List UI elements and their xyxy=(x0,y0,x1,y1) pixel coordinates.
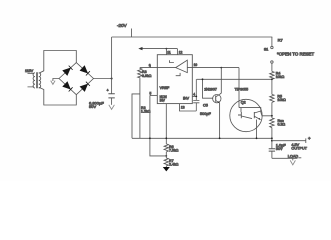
op-amp regulator IC U1 box xyxy=(157,55,192,104)
pin 6 VREF wire to R3 xyxy=(140,67,157,69)
svg-text:OUTPUT: OUTPUT xyxy=(291,147,307,151)
svg-text:LOAD: LOAD xyxy=(288,154,299,158)
transistor Q1 2N2907 xyxy=(213,94,221,102)
ground arrow (open) at output xyxy=(292,158,294,160)
node junction at filter xyxy=(111,78,113,80)
svg-text:50V: 50V xyxy=(89,104,96,109)
wire secondary bottom to bridge bottom xyxy=(39,87,77,105)
divider tap jog xyxy=(150,95,166,155)
error amplifier triangle inside U1 xyxy=(176,60,188,72)
wire R7 to ground xyxy=(165,166,167,167)
svg-text:10kΩ: 10kΩ xyxy=(277,98,286,102)
pin 10 VOUT wire xyxy=(192,67,239,69)
bridge rectifier arms xyxy=(59,63,94,95)
+20V label tick xyxy=(131,29,133,38)
diode D1 top-left xyxy=(63,66,73,76)
diode D2 top-right xyxy=(80,66,90,76)
svg-text:115V: 115V xyxy=(25,69,34,73)
capacitor C1 6800uF xyxy=(107,79,115,105)
svg-text:50V: 50V xyxy=(276,147,283,151)
resistor R4 xyxy=(270,71,274,79)
core xyxy=(36,72,37,88)
secondary winding xyxy=(39,73,41,88)
right rail from top xyxy=(271,37,273,46)
capacitor C5 500pF xyxy=(193,79,199,111)
Q1 collector riser xyxy=(219,68,221,95)
svg-text:VREF: VREF xyxy=(160,86,170,90)
pin 13 COMP wire xyxy=(180,104,197,111)
svg-text:*OPEN TO RESET: *OPEN TO RESET xyxy=(277,51,314,56)
wire R4 to R5, junction with CL line xyxy=(271,79,273,94)
transformer T1 xyxy=(28,72,41,88)
Q1 base jog xyxy=(203,79,214,98)
Q2 collector to right rail xyxy=(261,112,272,116)
diode D4 bottom-right xyxy=(80,82,90,92)
resistor Rsc xyxy=(270,118,274,128)
svg-text:10kΩ: 10kΩ xyxy=(276,75,285,79)
svg-text:5: 5 xyxy=(150,92,152,96)
wire R6 to R7 xyxy=(165,152,167,158)
ground arrow (open, gray) at bridge xyxy=(51,81,55,85)
svg-text:S1: S1 xyxy=(264,48,268,52)
svg-text:11: 11 xyxy=(167,50,171,54)
svg-text:12: 12 xyxy=(179,50,183,54)
bottom sense line xyxy=(132,137,272,139)
svg-text:4: 4 xyxy=(193,93,195,97)
wire Rsc to output node xyxy=(271,128,273,149)
svg-text:C5: C5 xyxy=(203,104,208,108)
Q2 internal darlington xyxy=(239,108,261,112)
bridge left vertex ground stub xyxy=(53,79,59,82)
primary winding xyxy=(33,73,35,88)
svg-text:Q2: Q2 xyxy=(241,100,246,104)
wire bridge + output to filter node xyxy=(94,78,112,80)
svg-text:TIP3055: TIP3055 xyxy=(235,88,249,92)
diode D3 bottom-left xyxy=(63,82,73,92)
svg-text:-20V: -20V xyxy=(117,23,128,28)
svg-text:3.9kΩ: 3.9kΩ xyxy=(142,74,152,78)
svg-text:R7: R7 xyxy=(278,37,284,42)
pin 7 V- wire down from U1 xyxy=(165,104,167,144)
pin 5 NON INV wire xyxy=(150,94,157,96)
wire +V riser to top rail xyxy=(111,37,113,79)
Q1 emitter drop xyxy=(219,103,221,138)
pin 4 INV stub to C5 xyxy=(192,95,196,97)
svg-text:INV: INV xyxy=(160,98,166,102)
Q2 emitter drop to sense line xyxy=(256,120,258,139)
ground arrow (open, gray) below C1 xyxy=(109,105,115,110)
wire below switch xyxy=(271,63,273,71)
svg-text:+: + xyxy=(308,136,311,141)
V+ feed wire with arrow to pins 11,12 xyxy=(141,48,177,50)
resistor R7 xyxy=(164,158,168,166)
svg-text:500pF: 500pF xyxy=(200,112,211,116)
resistor R3 xyxy=(138,68,142,79)
output + lead xyxy=(272,138,306,143)
primary leads xyxy=(28,73,35,87)
svg-text:1.2kΩ: 1.2kΩ xyxy=(141,109,151,113)
R3 bottom wire to sense line xyxy=(132,78,140,138)
output - lead / bottom return xyxy=(272,157,301,160)
capacitor C2 output xyxy=(269,149,275,151)
ground (filled arrow) xyxy=(163,167,170,171)
wire R5 to Q2 collector junction xyxy=(271,102,273,118)
resistor R5 xyxy=(270,94,274,102)
svg-text:13: 13 xyxy=(181,106,185,110)
svg-text:2N2907: 2N2907 xyxy=(204,87,217,91)
top rail +20V xyxy=(112,36,273,38)
pin 12 stub xyxy=(176,49,178,55)
svg-text:INV: INV xyxy=(183,97,190,101)
svg-text:10: 10 xyxy=(194,63,198,67)
resistor R6 xyxy=(164,144,168,152)
pin 11 stub xyxy=(165,49,167,55)
pass transistor Q2 TIP3055 xyxy=(230,99,262,131)
svg-text:7.5kΩ: 7.5kΩ xyxy=(169,149,179,153)
svg-text:0.3Ω: 0.3Ω xyxy=(278,123,286,127)
wire secondary top to bridge top xyxy=(39,51,77,74)
current-limit line to right rail xyxy=(197,78,272,80)
switch S1 open-to-reset xyxy=(271,46,273,48)
svg-text:6: 6 xyxy=(149,64,151,68)
Q2 base drop from VOUT line xyxy=(238,68,240,108)
svg-text:2.4kΩ: 2.4kΩ xyxy=(169,162,179,166)
